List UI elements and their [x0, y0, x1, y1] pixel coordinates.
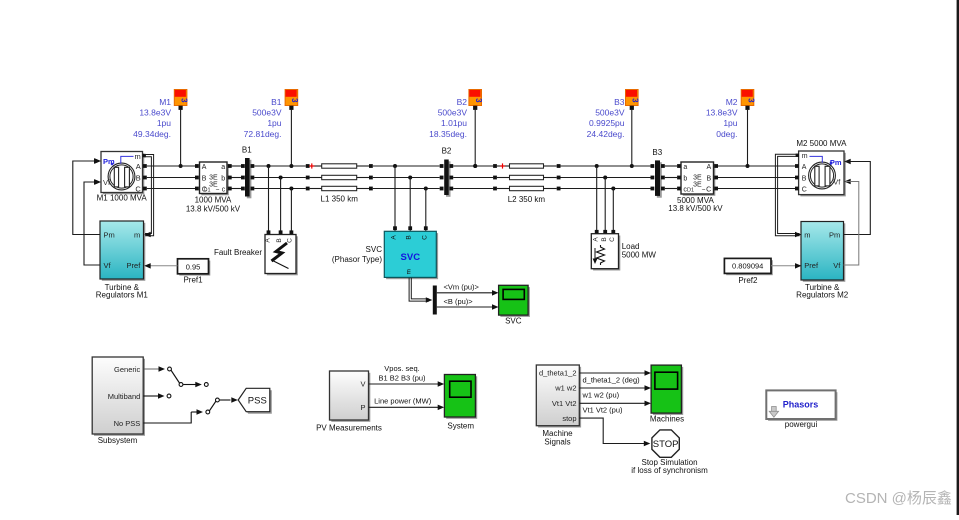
svg-text:d_theta1_2 (deg): d_theta1_2 (deg) — [583, 376, 641, 385]
svg-text:3: 3 — [474, 98, 483, 103]
svg-text:a: a — [683, 164, 687, 171]
wire tag M1 to phase A — [179, 109, 183, 168]
wire Multiband to contact — [144, 393, 171, 399]
svg-text:Machines: Machines — [650, 414, 684, 423]
svg-text:500e3V: 500e3V — [595, 108, 625, 118]
svg-text:b: b — [221, 176, 225, 183]
subsystem PV Measurements — [330, 371, 371, 422]
constant Pref1 — [178, 259, 211, 276]
svg-text:powergui: powergui — [785, 420, 818, 429]
label Load 5000 MW — [622, 242, 657, 260]
svg-text:P: P — [360, 403, 365, 412]
svg-text:M2: M2 — [726, 97, 738, 107]
svg-text:Fault Breaker: Fault Breaker — [214, 248, 262, 257]
transmission line L2 350 km — [493, 163, 560, 190]
label values B3 — [587, 97, 625, 139]
svg-text:Pref: Pref — [804, 261, 819, 270]
svg-text:13.8 kV/500 kV: 13.8 kV/500 kV — [186, 204, 241, 213]
block SVC (Phasor Type) — [384, 231, 438, 279]
wires B1 to line L1 — [254, 164, 306, 191]
svg-text:A: A — [265, 238, 272, 243]
wire m vector M1 to turbine — [144, 155, 154, 238]
svg-text:PSS: PSS — [248, 395, 267, 406]
svg-text:49.34deg.: 49.34deg. — [133, 129, 171, 139]
label values B2 — [429, 97, 467, 139]
svg-text:<Vm (pu)>: <Vm (pu)> — [444, 282, 480, 291]
block Load 5000 MW — [591, 234, 620, 271]
block STOP — [652, 430, 679, 457]
svg-text:D1: D1 — [203, 188, 210, 194]
svg-text:B1 B2 B3 (pu): B1 B2 B3 (pu) — [378, 373, 426, 382]
label Stop Simulation — [631, 458, 708, 475]
svg-text:No PSS: No PSS — [114, 419, 141, 428]
svg-text:A: A — [391, 235, 398, 240]
svg-text:~: ~ — [216, 187, 220, 194]
wire Vm signal to scope — [437, 290, 499, 296]
block powergui Phasors — [766, 390, 837, 420]
svg-text:24.42deg.: 24.42deg. — [587, 129, 625, 139]
svg-text:Phasors: Phasors — [783, 400, 819, 410]
svg-text:Multiband: Multiband — [108, 392, 141, 401]
wire stop to STOP block — [580, 418, 651, 446]
wire switch 1 to contact 2 — [183, 382, 208, 387]
svg-text:Pm: Pm — [104, 230, 115, 239]
svg-text:0deg.: 0deg. — [716, 129, 737, 139]
svg-text:M1 1000 MVA: M1 1000 MVA — [97, 194, 148, 203]
svg-text:Subsystem: Subsystem — [98, 436, 138, 445]
wire No PSS to switch 2 — [144, 409, 204, 423]
svg-text:Vt1 Vt2: Vt1 Vt2 — [552, 399, 577, 408]
label values M2 — [706, 97, 738, 139]
label Turbine & Regulators M1 — [96, 283, 149, 300]
svg-text:d_theta1_2: d_theta1_2 — [539, 368, 577, 377]
svg-text:m: m — [802, 153, 808, 160]
svg-text:13.8e3V: 13.8e3V — [706, 108, 738, 118]
subsystem Turbine & Regulators M2 — [801, 222, 845, 282]
switch contact 1a — [168, 367, 183, 386]
subsystem PSS selector — [92, 357, 145, 436]
bus bar B1 — [245, 158, 254, 198]
svg-text:A: A — [593, 237, 600, 242]
subsystem Machine Signals — [536, 365, 581, 428]
svg-text:Vpos. seq.: Vpos. seq. — [384, 364, 419, 373]
scope System — [444, 375, 477, 419]
synchronous machine M2 — [795, 151, 851, 196]
wire Vt1 Vt2 to Machines scope — [580, 401, 652, 407]
svg-text:0.809094: 0.809094 — [732, 262, 763, 271]
svg-text:5000 MW: 5000 MW — [622, 250, 657, 259]
svg-text:500e3V: 500e3V — [252, 108, 282, 118]
wire B signal to scope — [437, 304, 499, 310]
subsystem Turbine & Regulators M1 — [100, 221, 145, 281]
svg-text:B2: B2 — [457, 97, 468, 107]
svg-text:V: V — [360, 380, 365, 389]
svg-text:stop: stop — [562, 414, 576, 423]
svg-text:1pu: 1pu — [157, 118, 171, 128]
svg-text:500e3V: 500e3V — [438, 108, 468, 118]
svg-text:C: C — [706, 187, 711, 194]
wires taps down to Load — [595, 166, 615, 234]
svg-text:C: C — [135, 184, 141, 193]
goto tag PSS — [238, 388, 272, 413]
svg-text:C: C — [287, 238, 294, 243]
svg-text:Pref2: Pref2 — [738, 276, 758, 285]
svg-text:<B (pu)>: <B (pu)> — [444, 297, 474, 306]
wires T2 to machine M2 — [718, 166, 796, 189]
svg-text:Pm: Pm — [829, 230, 840, 239]
demux SVC signals — [433, 286, 437, 315]
svg-text:Regulators M1: Regulators M1 — [96, 291, 149, 300]
synchronous machine M1 — [95, 152, 147, 195]
svg-text:1pu: 1pu — [267, 118, 281, 128]
svg-text:Pref1: Pref1 — [183, 276, 203, 285]
wire Pref1 to Turbine M1 — [144, 263, 177, 269]
svg-text:w1 w2: w1 w2 — [554, 384, 576, 393]
svg-text:m: m — [804, 230, 810, 239]
label values M1 — [133, 97, 171, 139]
svg-text:3: 3 — [631, 98, 640, 103]
wire V to System scope — [369, 381, 445, 387]
label values B1 — [244, 97, 282, 139]
measurement tag B3 — [626, 90, 640, 110]
svg-text:Signals: Signals — [544, 437, 570, 446]
svg-text:M2 5000 MVA: M2 5000 MVA — [796, 139, 847, 148]
svg-text:Vt1 Vt2 (pu): Vt1 Vt2 (pu) — [583, 406, 624, 415]
svg-text:Line power (MW): Line power (MW) — [374, 397, 432, 406]
wire tag M2 to phase A — [746, 109, 750, 168]
svg-text:m: m — [135, 152, 141, 161]
wire d_theta to Machines scope — [580, 370, 652, 376]
svg-text:A: A — [202, 164, 207, 171]
svg-text:B: B — [202, 176, 207, 183]
scope SVC — [499, 285, 530, 317]
wire tag B3 to phase A — [630, 109, 634, 168]
svg-text:0.9925pu: 0.9925pu — [589, 118, 625, 128]
svg-text:A: A — [136, 162, 141, 171]
svg-text:Regulators M2: Regulators M2 — [796, 290, 849, 299]
svg-text:Generic: Generic — [114, 365, 141, 374]
svg-text:C: C — [802, 186, 807, 193]
wire Vf loop M2 — [844, 182, 859, 266]
svg-text:Pm: Pm — [830, 158, 842, 167]
label Machine Signals — [542, 429, 573, 447]
svg-text:18.35deg.: 18.35deg. — [429, 129, 467, 139]
svg-text:B2: B2 — [442, 146, 452, 155]
svg-text:B: B — [802, 176, 807, 183]
svg-text:(Phasor Type): (Phasor Type) — [332, 255, 382, 264]
svg-text:Vf: Vf — [833, 261, 841, 270]
svg-text:3E: 3E — [209, 174, 218, 181]
svg-text:3: 3 — [290, 98, 299, 103]
switch contact 2a — [206, 398, 219, 414]
svg-text:~: ~ — [702, 187, 706, 194]
svg-text:SVC: SVC — [366, 245, 383, 254]
svg-text:3: 3 — [746, 98, 755, 103]
svg-text:B1: B1 — [242, 145, 252, 154]
svg-text:b: b — [683, 176, 687, 183]
svg-text:Pref: Pref — [127, 261, 142, 270]
svg-text:C: C — [421, 235, 428, 240]
svg-text:if loss of synchronism: if loss of synchronism — [631, 466, 708, 475]
svg-text:L1 350 km: L1 350 km — [321, 194, 359, 203]
wire SVC m vector to demux — [409, 278, 432, 303]
svg-text:3E: 3E — [693, 174, 702, 181]
svg-text:Vf: Vf — [104, 261, 112, 270]
svg-text:System: System — [447, 421, 474, 430]
wires taps down to Fault Breaker — [267, 166, 294, 234]
svg-text:w1 w2 (pu): w1 w2 (pu) — [582, 391, 620, 400]
block Fault Breaker — [265, 235, 298, 276]
svg-text:72.81deg.: 72.81deg. — [244, 129, 282, 139]
svg-text:3: 3 — [179, 98, 188, 103]
svg-text:Vf: Vf — [103, 178, 111, 187]
bus bar B2 — [440, 160, 453, 197]
svg-text:B: B — [136, 174, 141, 183]
svg-text:B: B — [601, 237, 608, 241]
svg-text:SVC: SVC — [401, 252, 421, 263]
wire Vf loop M1 — [84, 179, 101, 265]
wire P to System scope — [369, 405, 445, 411]
svg-text:c: c — [222, 187, 226, 194]
label SVC (Phasor Type) — [332, 245, 382, 264]
svg-text:CSDN @杨辰鑫: CSDN @杨辰鑫 — [845, 489, 952, 507]
label Vpos seq — [378, 364, 426, 382]
svg-text:B3: B3 — [652, 148, 662, 157]
wires L1 to bus B2 — [373, 164, 440, 191]
svg-text:1000 MVA: 1000 MVA — [195, 196, 232, 205]
svg-text:STOP: STOP — [653, 439, 679, 450]
measurement tag M1 — [174, 90, 188, 110]
svg-text:M1: M1 — [159, 97, 171, 107]
wire Generic to switch — [144, 366, 166, 372]
svg-text:Vf: Vf — [833, 177, 841, 186]
wire tag B1 to phase A — [289, 109, 293, 168]
transformer 1000 MVA 13.8kV/500kV — [200, 162, 232, 195]
svg-text:A: A — [707, 164, 712, 171]
svg-text:a: a — [221, 164, 225, 171]
wire Pref2 to Turbine M2 — [771, 263, 802, 269]
wires B3 to transformer T2 — [665, 164, 681, 190]
label 5000 MVA — [668, 196, 723, 213]
svg-text:B: B — [276, 238, 283, 242]
svg-text:1pu: 1pu — [723, 118, 737, 128]
wire Pm loop M2 — [844, 162, 871, 235]
svg-text:C: C — [609, 237, 616, 242]
wires L2 to bus B3 — [561, 164, 651, 191]
wires M1 to transformer T1 — [147, 164, 199, 190]
measurement tag B1 — [285, 90, 299, 110]
wires T1 to bus B1 — [232, 164, 245, 190]
svg-text:D1: D1 — [687, 188, 694, 194]
transformer 5000 MVA 13.8kV/500kV — [681, 162, 718, 196]
svg-text:B3: B3 — [614, 97, 625, 107]
svg-text:B: B — [707, 176, 712, 183]
wire w1 w2 to Machines scope — [580, 385, 652, 391]
wire tag B2 to phase A — [473, 109, 477, 168]
wires B2 to line L2 — [453, 164, 493, 189]
measurement tag B2 — [469, 90, 483, 110]
scope Machines — [651, 365, 683, 415]
constant Pref2 — [724, 258, 772, 275]
svg-text:m: m — [406, 269, 413, 274]
wire m vector M2 to turbine — [775, 154, 801, 237]
svg-text:m: m — [134, 230, 140, 239]
svg-text:Pm: Pm — [103, 157, 115, 166]
svg-text:13.8e3V: 13.8e3V — [139, 108, 171, 118]
svg-text:13.8 kV/500 kV: 13.8 kV/500 kV — [668, 204, 723, 213]
bus bar B3 — [651, 160, 665, 197]
svg-text:L2 350 km: L2 350 km — [508, 195, 546, 204]
svg-text:B: B — [406, 235, 413, 239]
label 1000 MVA — [186, 196, 241, 214]
svg-text:A: A — [802, 164, 807, 171]
label Turbine & Regulators M2 — [796, 283, 849, 300]
window right border — [957, 0, 959, 515]
wire switch 2 to PSS tag — [220, 397, 238, 403]
svg-text:B1: B1 — [271, 97, 282, 107]
wire Pm loop M1 — [73, 158, 101, 234]
svg-text:1.01pu: 1.01pu — [441, 118, 467, 128]
transmission line L1 350 km — [306, 163, 373, 190]
svg-text:PV Measurements: PV Measurements — [316, 423, 382, 432]
svg-text:SVC: SVC — [505, 316, 522, 325]
wires taps down to SVC — [393, 166, 428, 231]
svg-text:0.95: 0.95 — [186, 262, 201, 271]
measurement tag M2 — [741, 90, 755, 110]
